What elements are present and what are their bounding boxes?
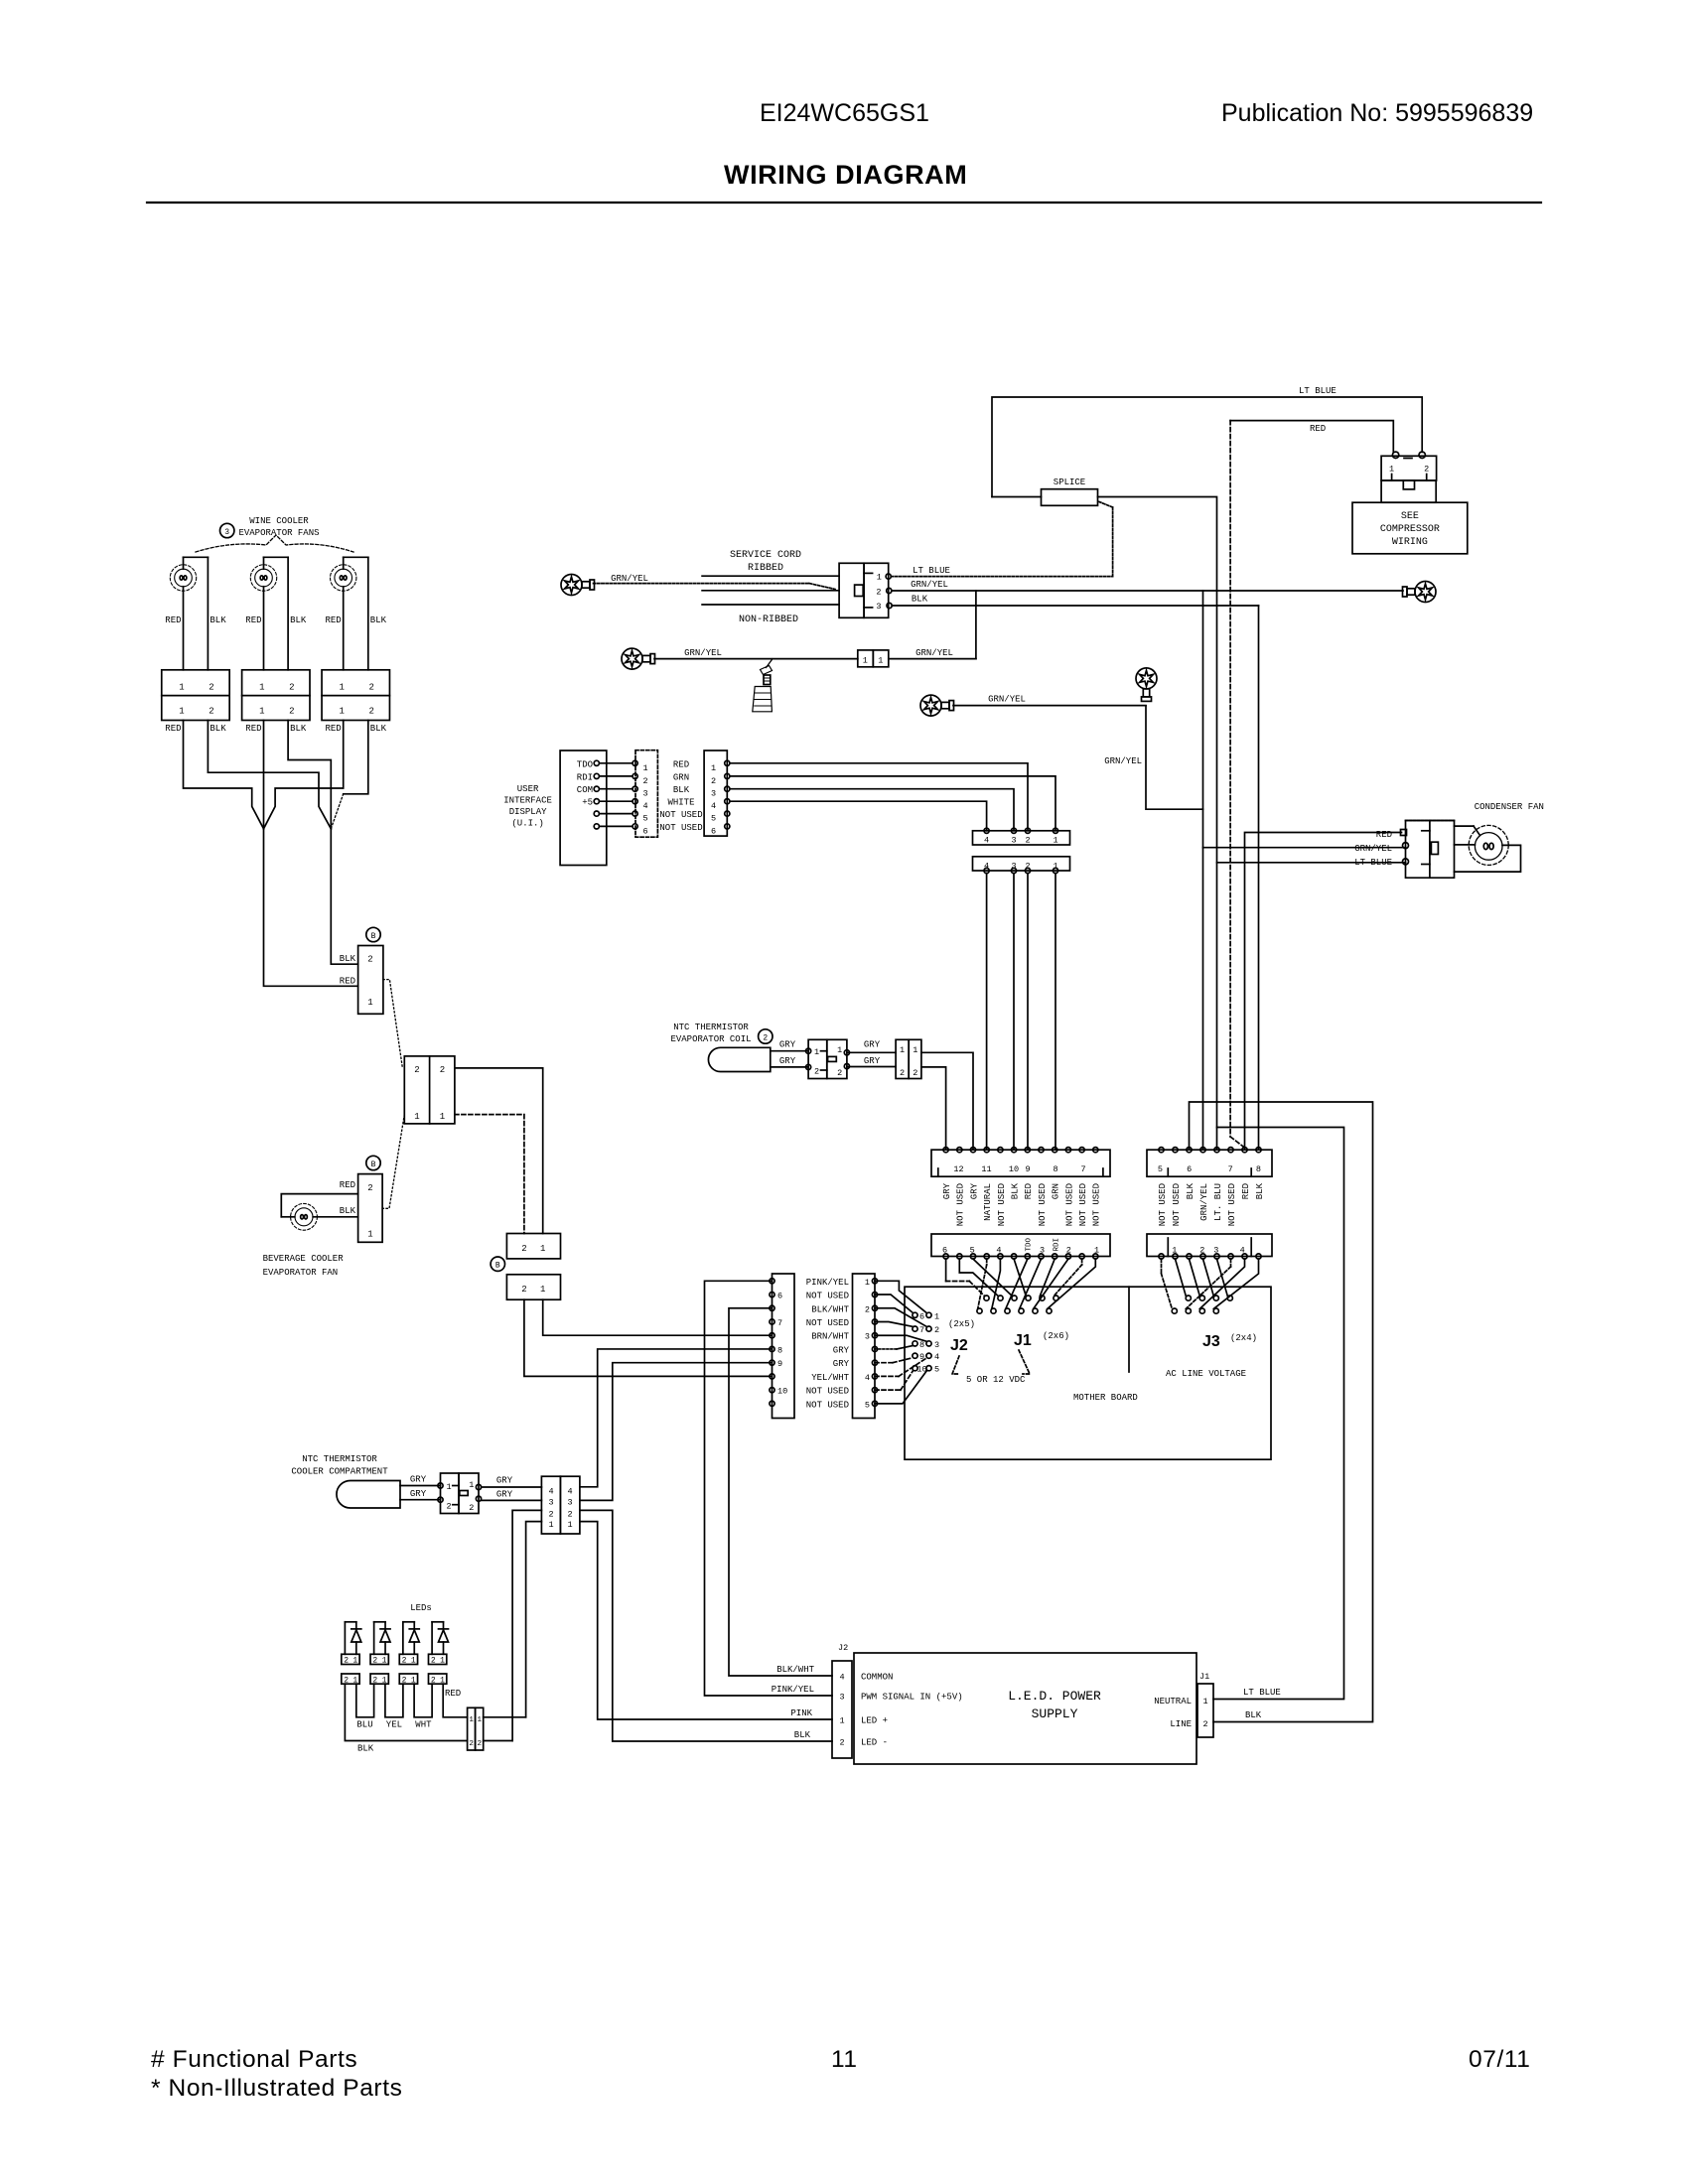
svg-text:RED: RED xyxy=(165,724,181,734)
svg-text:2: 2 xyxy=(865,1304,870,1314)
svg-text:2: 2 xyxy=(372,1657,377,1666)
condenser fan motor xyxy=(1469,825,1508,865)
svg-text:WIRING: WIRING xyxy=(1392,537,1428,548)
wire RED beverage fan xyxy=(281,1194,357,1217)
svg-text:GRN/YEL: GRN/YEL xyxy=(611,574,648,584)
svg-text:RED: RED xyxy=(245,615,261,625)
svg-text:NOT USED: NOT USED xyxy=(1092,1183,1102,1226)
svg-text:2: 2 xyxy=(711,776,716,786)
wire WHT LED3 to LED4 xyxy=(414,1684,432,1717)
wire GRN/YEL trunk to J3 pin4 xyxy=(1202,591,1204,1150)
dotted link connector B1 to harness connector xyxy=(383,980,403,1068)
svg-text:1: 1 xyxy=(567,1520,572,1530)
connector B2 (beverage cooler fan, pins 2/1) xyxy=(366,1156,380,1169)
svg-text:SPLICE: SPLICE xyxy=(1054,478,1085,487)
svg-text:EI24WC65GS1: EI24WC65GS1 xyxy=(760,99,929,127)
condenser fan motor wires xyxy=(1455,825,1475,827)
ground screw G4 xyxy=(1136,668,1157,689)
svg-text:COOLER COMPARTMENT: COOLER COMPARTMENT xyxy=(291,1467,388,1477)
svg-text:3: 3 xyxy=(839,1693,844,1703)
svg-text:2: 2 xyxy=(440,1065,445,1075)
svg-text:2: 2 xyxy=(839,1738,844,1748)
svg-text:RED: RED xyxy=(1024,1183,1034,1199)
svg-text:NOT USED: NOT USED xyxy=(1172,1183,1182,1226)
LED D1 xyxy=(345,1621,355,1623)
svg-text:RED: RED xyxy=(340,977,355,987)
svg-text:2: 2 xyxy=(431,1657,436,1666)
wire GRY to 4-pin connector row4 xyxy=(482,1486,542,1488)
UI strip connector upper (4 3 2 1) xyxy=(973,831,1070,845)
J1 harness connector strip (pins 12..7) xyxy=(931,1150,1110,1176)
svg-text:TDO: TDO xyxy=(1025,1238,1033,1252)
LED inline connector pair (1/2 - 1/2) xyxy=(468,1707,476,1750)
svg-text:BLK: BLK xyxy=(1255,1182,1265,1199)
svg-text:2: 2 xyxy=(344,1657,349,1666)
wire RED LED4 to inline connector xyxy=(443,1684,467,1717)
svg-text:2: 2 xyxy=(876,588,881,598)
svg-text:1: 1 xyxy=(540,1244,545,1254)
svg-text:BLK: BLK xyxy=(1011,1182,1021,1199)
svg-text:NOT USED: NOT USED xyxy=(806,1400,849,1410)
J1 header 2x6 on mother board xyxy=(984,1296,989,1300)
document header xyxy=(724,99,1533,190)
svg-text:1: 1 xyxy=(814,1047,819,1057)
wire BLK fan2 to splice point xyxy=(288,721,331,829)
NTC thermistor cooler compartment bulb xyxy=(337,1481,400,1509)
svg-text:NTC THERMISTOR: NTC THERMISTOR xyxy=(302,1454,377,1464)
svg-text:BLK: BLK xyxy=(1245,1710,1262,1720)
svg-text:BLK: BLK xyxy=(340,1206,356,1216)
title rule xyxy=(147,202,1541,204)
svg-text:1: 1 xyxy=(259,707,264,717)
svg-text:2: 2 xyxy=(934,1325,939,1335)
dashed wire RED compressor to J3 pin7 xyxy=(1229,421,1231,1137)
svg-text:USER: USER xyxy=(517,784,539,794)
ground screw G3 xyxy=(920,695,941,716)
svg-text:GRN/YEL: GRN/YEL xyxy=(684,648,722,658)
svg-text:NOT USED: NOT USED xyxy=(806,1292,849,1301)
UI strip connector lower (4 3 2 1) xyxy=(973,857,1070,871)
svg-text:2: 2 xyxy=(1025,835,1030,845)
svg-text:2: 2 xyxy=(1202,1719,1207,1729)
wire BLK LED chain xyxy=(345,1684,467,1740)
svg-text:BLK: BLK xyxy=(370,724,387,734)
svg-text:NOT USED: NOT USED xyxy=(659,810,702,820)
svg-text:1: 1 xyxy=(837,1045,842,1055)
svg-text:Publication No: 5995596839: Publication No: 5995596839 xyxy=(1221,99,1533,127)
wires UI strip to J1 connector xyxy=(986,874,988,1151)
svg-text:1: 1 xyxy=(446,1482,451,1492)
wire LT BLUE splice to J3 trunk xyxy=(1098,497,1217,1151)
svg-text:7: 7 xyxy=(919,1325,924,1335)
svg-text:3: 3 xyxy=(876,602,881,612)
svg-text:7: 7 xyxy=(1080,1164,1085,1174)
wire BLK UI pin3 to strip xyxy=(730,789,1014,831)
svg-text:COM: COM xyxy=(577,785,593,795)
svg-text:RED: RED xyxy=(445,1689,461,1699)
svg-text:2: 2 xyxy=(367,955,372,965)
svg-text:NOT USED: NOT USED xyxy=(997,1183,1007,1226)
svg-text:J2: J2 xyxy=(950,1337,968,1354)
MOTHER BOARD box xyxy=(905,1287,1271,1459)
svg-text:RDI: RDI xyxy=(1053,1238,1060,1252)
svg-text:LED +: LED + xyxy=(861,1716,888,1726)
svg-text:GRY: GRY xyxy=(864,1056,881,1066)
svg-text:1: 1 xyxy=(642,763,647,773)
svg-text:GRN/YEL: GRN/YEL xyxy=(988,695,1026,705)
svg-text:2: 2 xyxy=(642,776,647,786)
svg-text:RED: RED xyxy=(1241,1183,1251,1199)
svg-text:RDI: RDI xyxy=(577,772,593,782)
svg-text:NOT USED: NOT USED xyxy=(806,1318,849,1328)
UI display connector (dashed, pins 1-6) xyxy=(635,751,657,838)
svg-text:NOT USED: NOT USED xyxy=(1038,1183,1048,1226)
connector B1 (wine cooler fans, pins 2/1) xyxy=(366,927,380,941)
wire BLU LED1 to LED2 xyxy=(356,1684,374,1717)
svg-text:B: B xyxy=(371,932,376,941)
svg-text:AC LINE VOLTAGE: AC LINE VOLTAGE xyxy=(1166,1369,1246,1379)
svg-text:(2x5): (2x5) xyxy=(948,1319,975,1329)
svg-text:2: 2 xyxy=(469,1503,474,1513)
svg-text:3: 3 xyxy=(1011,835,1016,845)
harness connector 2x2 (cells 2/2 over 1/1) xyxy=(404,1056,455,1124)
svg-text:3: 3 xyxy=(711,789,716,799)
svg-text:COMMON: COMMON xyxy=(861,1673,893,1683)
svg-text:NATURAL: NATURAL xyxy=(983,1183,993,1221)
svg-text:RED: RED xyxy=(245,724,261,734)
svg-text:BRN/WHT: BRN/WHT xyxy=(811,1332,849,1342)
svg-text:(U.I.): (U.I.) xyxy=(511,819,543,829)
wire GRY inline connector to J1 pin1 xyxy=(921,1067,946,1150)
svg-text:5: 5 xyxy=(865,1400,870,1410)
svg-text:WIRING DIAGRAM: WIRING DIAGRAM xyxy=(724,160,967,190)
svg-text:1: 1 xyxy=(865,1278,870,1288)
svg-text:5: 5 xyxy=(934,1365,939,1375)
LED D3 xyxy=(403,1621,414,1623)
J2 harness connector right half xyxy=(853,1274,876,1419)
svg-text:NOT USED: NOT USED xyxy=(1158,1183,1168,1226)
wire GRY evap thermistor 1 xyxy=(771,1050,808,1052)
wire GRN/YEL riser to service cord earth line xyxy=(975,591,977,659)
qty callout 3 xyxy=(220,523,234,537)
svg-text:J3: J3 xyxy=(1202,1333,1220,1350)
svg-text:NOT USED: NOT USED xyxy=(956,1183,966,1226)
svg-text:GRY: GRY xyxy=(779,1040,796,1050)
USER INTERFACE DISPLAY (U.I.) box xyxy=(560,751,607,866)
svg-text:GRN: GRN xyxy=(1052,1183,1061,1199)
svg-text:1: 1 xyxy=(711,763,716,773)
wire GRY cooler thermistor 1 xyxy=(400,1485,441,1487)
wire RED fan1 to splice point xyxy=(184,721,264,829)
svg-text:8: 8 xyxy=(1256,1164,1261,1174)
service cord line 1 xyxy=(702,575,839,577)
svg-text:PINK/YEL: PINK/YEL xyxy=(806,1278,849,1288)
svg-text:1: 1 xyxy=(179,683,184,693)
svg-text:1: 1 xyxy=(839,1716,844,1726)
wire RED fan2 to splice point xyxy=(263,721,265,829)
svg-text:PINK/YEL: PINK/YEL xyxy=(772,1685,814,1695)
wire RED fan3 to splice point xyxy=(264,721,344,829)
svg-text:GRY: GRY xyxy=(969,1182,979,1199)
svg-text:4: 4 xyxy=(548,1487,553,1497)
svg-text:1: 1 xyxy=(540,1285,545,1295)
wire BLK beverage fan xyxy=(313,1216,357,1218)
svg-text:NEUTRAL: NEUTRAL xyxy=(1154,1697,1192,1706)
svg-text:1: 1 xyxy=(1053,835,1057,845)
svg-text:6: 6 xyxy=(1187,1164,1192,1174)
svg-text:1: 1 xyxy=(440,1657,445,1666)
svg-text:1: 1 xyxy=(259,683,264,693)
connector B3 lower half (2 1) xyxy=(506,1275,560,1299)
condenser fan connector xyxy=(1406,821,1455,879)
svg-text:07/11: 07/11 xyxy=(1469,2046,1531,2073)
NTC thermistor evaporator coil bulb xyxy=(708,1047,770,1071)
wire BLK trunk to connector B1 xyxy=(331,829,357,964)
wire GRY to inline connector 2 xyxy=(847,1066,896,1068)
svg-text:RED: RED xyxy=(673,759,689,769)
svg-text:2: 2 xyxy=(521,1244,526,1254)
UI harness connector (pins 1-6) xyxy=(704,751,727,836)
qty callout 2 xyxy=(759,1029,773,1043)
svg-text:LEDs: LEDs xyxy=(410,1603,432,1613)
wire BLK fan3 to splice point (dotted leg) xyxy=(344,721,368,794)
wine cooler evaporator fan motor M1 xyxy=(184,556,209,558)
svg-text:B: B xyxy=(371,1160,376,1169)
svg-text:GRN/YEL: GRN/YEL xyxy=(1104,756,1142,766)
svg-text:4: 4 xyxy=(567,1487,572,1497)
wire YEL LED2 to LED3 xyxy=(385,1684,403,1717)
svg-text:BLK: BLK xyxy=(357,1744,374,1754)
svg-text:2: 2 xyxy=(814,1067,819,1077)
svg-text:5: 5 xyxy=(711,814,716,824)
svg-text:2: 2 xyxy=(548,1510,553,1520)
svg-text:J1: J1 xyxy=(1014,1332,1032,1349)
connector pair fan M1 (2x2 cells 1/2) xyxy=(162,670,229,721)
inline connector pair (1/2 - 1/2) evap thermistor to J1 xyxy=(896,1039,909,1078)
svg-text:12: 12 xyxy=(953,1164,963,1174)
svg-text:1: 1 xyxy=(352,1657,357,1666)
wire GRY to 4-pin connector row3 xyxy=(482,1499,542,1501)
svg-text:SERVICE CORD: SERVICE CORD xyxy=(730,550,801,561)
svg-text:NOT USED: NOT USED xyxy=(1078,1183,1088,1226)
svg-text:2: 2 xyxy=(209,707,213,717)
svg-text:3: 3 xyxy=(865,1332,870,1342)
ground screw G2 xyxy=(622,648,642,669)
svg-text:LED -: LED - xyxy=(861,1738,888,1748)
J1 board-side strip (pins 6..1 TDO RDI) xyxy=(931,1234,1110,1257)
svg-text:1: 1 xyxy=(934,1311,939,1321)
svg-text:EVAPORATOR COIL: EVAPORATOR COIL xyxy=(670,1034,751,1044)
svg-text:1: 1 xyxy=(469,1480,474,1490)
svg-text:BLK: BLK xyxy=(210,615,226,625)
svg-text:WHT: WHT xyxy=(415,1720,432,1730)
svg-text:GRY: GRY xyxy=(833,1359,850,1369)
J2 harness connector left half xyxy=(773,1274,795,1419)
svg-text:6: 6 xyxy=(711,826,716,836)
wire BLK fan1 to splice point xyxy=(208,721,331,829)
J3 header 2x4 on mother board xyxy=(1186,1296,1191,1300)
svg-text:4: 4 xyxy=(934,1352,939,1362)
svg-text:EVAPORATOR FANS: EVAPORATOR FANS xyxy=(238,528,319,538)
svg-text:2: 2 xyxy=(369,707,374,717)
svg-text:GRN/YEL: GRN/YEL xyxy=(1354,844,1392,854)
wire GRN UI pin2 to strip xyxy=(730,776,1055,831)
svg-text:BLU: BLU xyxy=(356,1720,372,1730)
wire LED supply BLK from 4-pin row2 xyxy=(580,1510,832,1741)
service cord line 3 xyxy=(702,604,839,606)
svg-text:9: 9 xyxy=(1025,1164,1030,1174)
svg-text:5: 5 xyxy=(1158,1164,1163,1174)
svg-text:GRY: GRY xyxy=(496,1476,513,1486)
svg-text:2: 2 xyxy=(402,1657,407,1666)
svg-text:2: 2 xyxy=(414,1065,419,1075)
svg-text:NOT USED: NOT USED xyxy=(659,823,702,833)
wire GRY cooler thermistor 1 riser xyxy=(580,1349,773,1487)
svg-text:GRN/YEL: GRN/YEL xyxy=(911,580,948,590)
LED D2 connector pair (2 1) xyxy=(370,1654,388,1664)
svg-text:7: 7 xyxy=(777,1318,782,1328)
svg-text:9: 9 xyxy=(777,1359,782,1369)
svg-text:+5: +5 xyxy=(582,798,593,808)
beverage cooler evaporator fan motor xyxy=(295,1208,313,1226)
svg-text:7: 7 xyxy=(1228,1164,1233,1174)
svg-text:2: 2 xyxy=(763,1034,768,1043)
svg-text:1: 1 xyxy=(1389,465,1394,475)
svg-text:GRN/YEL: GRN/YEL xyxy=(915,648,953,658)
qty callout B xyxy=(491,1257,504,1271)
wine cooler evaporator fan motor M2 xyxy=(264,556,289,558)
J3 fan-out wires strip to header xyxy=(1161,1259,1163,1274)
svg-text:GRY: GRY xyxy=(833,1345,850,1355)
svg-text:* Non-Illustrated Parts: * Non-Illustrated Parts xyxy=(151,2075,402,2102)
compressor terminal block (pins 1/2) xyxy=(1392,452,1398,458)
svg-text:2: 2 xyxy=(521,1285,526,1295)
wire LED BLK chain from 4-pin row2 left xyxy=(512,1510,541,1740)
connector pair cooler thermistor (1/2 - 1/2) xyxy=(441,1473,460,1514)
connector pair fan M3 (2x2 cells 1/2) xyxy=(322,670,389,721)
svg-text:10: 10 xyxy=(1009,1164,1019,1174)
J2 header 2x5 on mother board xyxy=(913,1312,917,1317)
svg-text:4: 4 xyxy=(642,801,647,811)
svg-text:(2x4): (2x4) xyxy=(1230,1333,1257,1343)
svg-text:1: 1 xyxy=(414,1112,419,1122)
svg-text:2: 2 xyxy=(289,707,294,717)
svg-text:BLK: BLK xyxy=(340,954,356,964)
svg-text:2: 2 xyxy=(369,683,374,693)
wire from 2x2 pin2 to connector B3 pin1 xyxy=(455,1068,543,1234)
inline earth connector (1|1) xyxy=(858,650,874,667)
wire PINK/YEL to LED power supply pin3 xyxy=(705,1281,833,1696)
svg-text:RED: RED xyxy=(165,615,181,625)
svg-text:4: 4 xyxy=(711,801,716,811)
dotted link beverage connector to 2x2 pin1 xyxy=(382,1115,404,1209)
svg-text:1: 1 xyxy=(382,1657,387,1666)
svg-text:1: 1 xyxy=(411,1657,416,1666)
svg-text:11: 11 xyxy=(981,1164,991,1174)
svg-text:BLK: BLK xyxy=(370,615,387,625)
svg-text:RED: RED xyxy=(1310,424,1326,434)
wire BRN/WHT from B3 pin1 to J2 harness xyxy=(543,1299,773,1335)
svg-text:1: 1 xyxy=(1202,1697,1207,1706)
svg-text:2: 2 xyxy=(837,1068,842,1078)
svg-text:GRY: GRY xyxy=(942,1182,952,1199)
svg-text:1: 1 xyxy=(878,655,883,665)
svg-text:NOT USED: NOT USED xyxy=(1064,1183,1074,1226)
svg-text:LT BLUE: LT BLUE xyxy=(913,566,950,576)
svg-text:3: 3 xyxy=(224,528,229,537)
svg-text:RIBBED: RIBBED xyxy=(748,563,783,574)
LED D2 xyxy=(374,1621,385,1623)
svg-text:GRY: GRY xyxy=(864,1040,881,1050)
svg-text:8: 8 xyxy=(919,1340,924,1350)
svg-text:GRN/YEL: GRN/YEL xyxy=(1199,1183,1209,1221)
svg-text:2: 2 xyxy=(913,1068,917,1078)
svg-text:PWM SIGNAL IN (+5V): PWM SIGNAL IN (+5V) xyxy=(861,1693,963,1703)
svg-text:INTERFACE: INTERFACE xyxy=(503,796,552,806)
svg-text:L.E.D. POWER: L.E.D. POWER xyxy=(1008,1689,1101,1704)
svg-text:NTC THERMISTOR: NTC THERMISTOR xyxy=(673,1023,749,1032)
svg-text:J1: J1 xyxy=(1199,1672,1209,1682)
svg-text:SUPPLY: SUPPLY xyxy=(1032,1706,1078,1721)
svg-text:B: B xyxy=(495,1262,500,1271)
wire BLK/WHT to LED power supply pin4 xyxy=(729,1308,832,1676)
svg-text:GRY: GRY xyxy=(779,1056,796,1066)
svg-text:5 OR 12 VDC: 5 OR 12 VDC xyxy=(966,1375,1026,1385)
svg-text:2: 2 xyxy=(289,683,294,693)
svg-text:MOTHER BOARD: MOTHER BOARD xyxy=(1073,1393,1138,1403)
svg-text:RED: RED xyxy=(325,615,341,625)
svg-text:1: 1 xyxy=(863,655,868,665)
connector pair evap thermistor (1/2 - 1/2) xyxy=(808,1039,827,1078)
svg-text:3: 3 xyxy=(642,789,647,799)
svg-text:2: 2 xyxy=(469,1740,474,1748)
svg-text:5: 5 xyxy=(642,814,647,824)
LED D3 connector pair (2 1) xyxy=(399,1654,417,1664)
svg-text:RED: RED xyxy=(1376,830,1392,840)
svg-text:1: 1 xyxy=(340,683,345,693)
wire LED RED chain from 4-pin row1 left xyxy=(526,1522,542,1717)
service cord line 2 xyxy=(702,590,839,592)
svg-text:3: 3 xyxy=(567,1498,572,1508)
J3 board-side strip (pins 1..4) xyxy=(1147,1234,1272,1257)
svg-text:1: 1 xyxy=(367,998,372,1008)
svg-text:SEE: SEE xyxy=(1401,511,1419,522)
J2 fan-out wires to header xyxy=(875,1281,927,1313)
svg-text:6: 6 xyxy=(642,826,647,836)
L.E.D. POWER SUPPLY box xyxy=(854,1653,1196,1764)
svg-text:PINK: PINK xyxy=(790,1708,812,1718)
wine cooler evaporator fan motor M3 xyxy=(344,556,368,558)
svg-text:RED: RED xyxy=(325,724,341,734)
svg-text:YEL: YEL xyxy=(386,1720,402,1730)
svg-text:1: 1 xyxy=(469,1716,474,1724)
svg-text:6: 6 xyxy=(777,1292,782,1301)
svg-text:8: 8 xyxy=(777,1345,782,1355)
svg-text:2: 2 xyxy=(446,1502,451,1512)
svg-text:WHITE: WHITE xyxy=(667,798,694,808)
svg-text:1: 1 xyxy=(179,707,184,717)
UI display pigtail wires to display connector xyxy=(594,760,599,765)
svg-text:10: 10 xyxy=(777,1387,787,1397)
wire YEL/WHT from B3 pin2 to J2 harness xyxy=(524,1299,773,1376)
svg-text:# Functional Parts: # Functional Parts xyxy=(151,2046,357,2073)
svg-text:4: 4 xyxy=(984,835,989,845)
svg-text:DISPLAY: DISPLAY xyxy=(509,807,547,817)
wire RED UI pin1 to strip xyxy=(730,763,1028,831)
SEE COMPRESSOR WIRING box xyxy=(1352,502,1468,554)
svg-text:1: 1 xyxy=(913,1045,917,1055)
ground screw G1 xyxy=(561,575,582,596)
